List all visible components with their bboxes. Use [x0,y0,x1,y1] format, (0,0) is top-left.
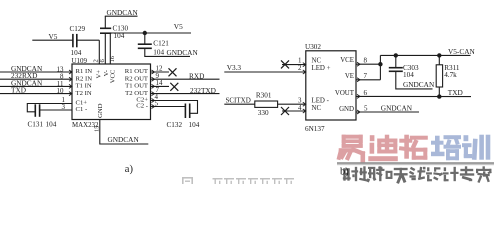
capacitor C130 [100,27,111,29]
svg-text:V3.3: V3.3 [227,63,242,72]
svg-text:VCC: VCC [110,69,117,83]
svg-text:T2 IN: T2 IN [76,90,92,97]
svg-text:10: 10 [57,87,65,95]
watermark tagline glyph he [376,166,393,181]
svg-text:232TXD: 232TXD [190,86,216,95]
watermark glyph pei [431,135,461,160]
wire C303 to GNDCAN [396,71,433,89]
no-connect X on pin 4 [281,107,289,115]
svg-text:GNDCAN: GNDCAN [167,48,199,57]
svg-text:VE: VE [345,73,354,80]
svg-text:SCITXD: SCITXD [226,96,251,104]
svg-text:R2 IN: R2 IN [76,75,93,82]
no-connect X on pin 12 [169,68,177,76]
wire net GNDCAN to pin 11 [0,85,72,87]
wire R301 to pin 3 [278,103,306,105]
svg-text:6N137: 6N137 [305,125,325,133]
junction on V5 line [143,31,147,35]
wire VCC rail to V5-CAN [380,54,470,56]
op-amp U302 6N137 chip body [306,51,356,120]
wire R311 top lead [438,55,440,64]
svg-text:NC: NC [312,57,322,64]
svg-text:C131: C131 [28,121,44,129]
junction pin8/VE [378,62,382,66]
svg-text:V5-CAN: V5-CAN [448,47,475,56]
svg-text:104: 104 [46,121,57,129]
svg-text:104: 104 [71,49,82,57]
wire C121 to GNDCAN [145,48,190,56]
watermark glyph tuo [399,135,428,160]
svg-text:U109: U109 [72,57,88,65]
svg-text:RXD: RXD [189,72,204,81]
watermark underline [337,162,494,164]
wire pin 14 stub [151,85,170,87]
svg-text:2: 2 [298,64,302,72]
svg-text:C1 -: C1 - [76,106,88,113]
wire pin 1 NC stub [282,64,306,66]
svg-text:NC: NC [312,105,322,112]
capacitor C129 [72,34,74,47]
wire C130 to GNDCAN [104,16,106,28]
watermark tagline glyph ji [443,167,459,181]
wire net TXD to pin 10 [0,93,72,95]
wire V5 to C129 [32,39,73,41]
watermark tagline glyph she2 [426,167,443,181]
junction R311/TXD [437,94,441,98]
svg-text:R301: R301 [256,92,272,100]
watermark tagline glyph xian [409,167,426,180]
wire V- pin 6 vertical [104,33,106,64]
svg-text:GNDCAN: GNDCAN [108,135,140,144]
svg-text:GNDCAN: GNDCAN [107,8,139,17]
wire pin 5 GND to GNDCAN [356,111,419,113]
wire pin 7 to 232TXD [151,93,220,95]
svg-text:GND: GND [97,103,104,118]
resistor R311 [436,65,442,87]
wire junction to C121 [144,33,146,44]
svg-text:LED -: LED - [312,97,330,104]
wire pin 12 stub [151,71,170,73]
svg-text:T1 OUT: T1 OUT [125,83,148,90]
svg-text:6: 6 [364,89,368,97]
no-connect X on pin 1 [281,60,289,68]
watermark glyph yi [337,135,366,163]
watermark tagline glyph tian [394,168,408,184]
svg-text:LED +: LED + [312,65,331,72]
caption text (cropped at bottom) [182,177,294,184]
wire pin 5 (C2-) [151,106,186,108]
svg-text:3: 3 [298,96,302,104]
watermark tagline glyph pin [359,166,376,182]
wire pin 8 VCE [356,63,380,65]
svg-text:C129: C129 [70,25,86,33]
watermark tagline glyph jia [476,166,492,183]
svg-text:R1 IN: R1 IN [76,68,93,75]
svg-text:b): b) [340,167,349,178]
junction R311 tap [437,53,441,57]
watermark tagline glyph zhuan [460,166,474,181]
wire pin 9 to RXD [151,78,220,80]
svg-text:C2 -: C2 - [136,103,148,110]
watermark tagline glyph she [343,167,358,181]
svg-text:8: 8 [364,57,368,65]
watermark glyph di [368,135,398,162]
wire SCITXD to R301 [224,103,255,105]
svg-text:GNDCAN: GNDCAN [403,80,435,89]
wire GNDCAN top label underline [105,15,138,17]
op-amp U109 MAX232 chip body [72,64,151,120]
wire pin 4 NC stub [282,110,306,112]
svg-text:GNDCAN: GNDCAN [381,103,413,112]
resistor R301 [255,101,278,107]
wire GND pin 15 to GNDCAN [100,120,149,145]
svg-text:R1 OUT: R1 OUT [125,68,148,75]
wire C129 to pin 2 [77,39,100,41]
wire pin 1 (C1+) loop [27,104,72,112]
capacitor C121 [138,43,152,45]
svg-text:7: 7 [364,72,368,80]
wire V+ pin 2 vertical [98,40,100,64]
wire net 232RXD to pin 8 [0,78,72,80]
no-connect X on pin 14 [170,83,178,91]
svg-text:V5: V5 [174,22,183,31]
wire V3.3 to pin 2 LED+ [224,71,305,73]
svg-text:C121: C121 [153,40,169,48]
wire pin 7 VE up to VCE rail [356,79,380,81]
svg-text:VCE: VCE [340,57,354,64]
wire R311 bottom lead [438,87,440,97]
svg-text:330: 330 [258,109,269,117]
watermark glyph xun [462,135,490,160]
junction C303 tap [394,53,398,57]
wire C303 top lead [395,55,397,67]
wire net GNDCAN to pin 13 [0,71,72,73]
svg-text:TXD: TXD [448,88,463,97]
svg-text:V5: V5 [49,32,58,41]
svg-text:5: 5 [364,104,368,112]
svg-text:4.7k: 4.7k [444,71,457,79]
svg-text:U302: U302 [305,43,321,51]
svg-text:104: 104 [153,49,164,57]
capacitor C132 [184,104,186,119]
svg-text:GND: GND [339,106,354,113]
wire pin 4 (C2+) loop [151,101,198,114]
capacitor C131 [34,104,36,117]
wire pin 6 VOUT to TXD [356,95,471,97]
svg-text:V+: V+ [95,70,102,79]
wire VCC to V5 [110,32,191,34]
svg-text:TXD: TXD [11,86,26,95]
svg-text:C132: C132 [167,121,183,129]
svg-text:104: 104 [403,71,414,79]
wire pin 3 (C1-) [40,109,72,111]
wire VCC pin 16 vertical [109,33,111,64]
svg-text:VOUT: VOUT [335,90,355,97]
svg-text:a): a) [125,164,134,175]
capacitor C303 [389,67,403,69]
svg-text:R2 OUT: R2 OUT [125,75,148,82]
svg-text:104: 104 [189,121,200,129]
svg-text:T1 IN: T1 IN [76,83,92,90]
